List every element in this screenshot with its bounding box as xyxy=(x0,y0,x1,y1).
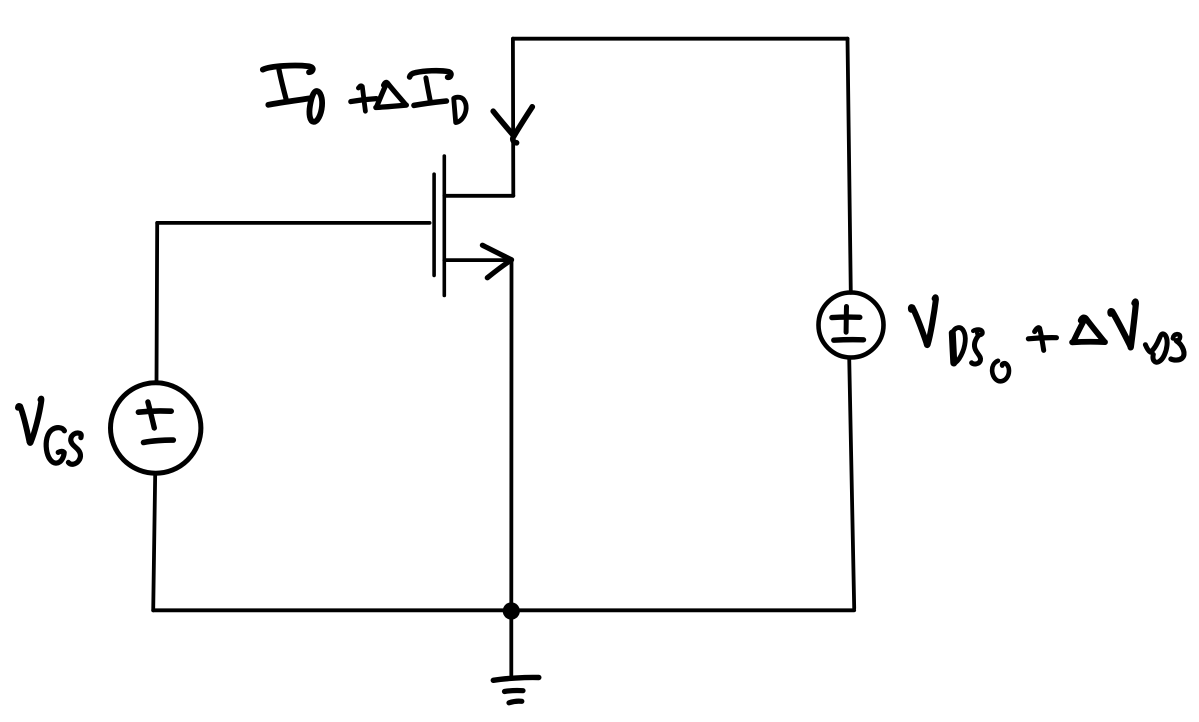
voltage source U1 (VGS) circle xyxy=(111,383,201,473)
I2 subscript D xyxy=(454,97,466,122)
V1 right xyxy=(927,297,936,345)
label I_D+dI_D : I1 top bar xyxy=(263,66,313,73)
delta 1 xyxy=(376,82,387,107)
U1 minus sign xyxy=(144,440,174,442)
wire gate vertical down to VGS xyxy=(155,223,159,383)
U1 plus sign xyxy=(148,402,154,428)
wire drain vertical xyxy=(511,39,515,196)
subscript G xyxy=(46,428,64,464)
V2 right xyxy=(1130,301,1136,347)
subsubscript 0 xyxy=(992,361,1009,382)
plus 2 crossbar xyxy=(1028,338,1056,339)
subscript D xyxy=(952,333,954,363)
I2 top bar xyxy=(410,71,451,78)
ground bar 1 xyxy=(493,677,539,680)
subscript S xyxy=(68,433,81,464)
subscript S xyxy=(973,329,982,335)
current arrow ID xyxy=(493,111,513,135)
I2 bottom bar xyxy=(414,101,446,105)
wire ground stub xyxy=(509,611,513,678)
plus 1 crossbar xyxy=(351,99,377,102)
plus 2 vertical xyxy=(1035,328,1044,351)
label VGS : V left stroke xyxy=(18,406,30,442)
ground bar 2 xyxy=(505,688,524,694)
ground bar 3 xyxy=(509,701,522,703)
transistor M1 channel bar xyxy=(442,156,446,296)
junction node dot xyxy=(503,602,520,619)
V2 left xyxy=(1110,311,1130,346)
I1 bottom bar xyxy=(268,98,309,104)
voltage source U2 (VDS) circle xyxy=(819,293,884,358)
transistor M1 source arrow xyxy=(482,245,511,260)
plus 1 vertical xyxy=(358,86,365,111)
wire right vertical upper xyxy=(848,39,851,293)
wire source vertical xyxy=(509,260,513,611)
wire VDS- to bottom right corner xyxy=(849,358,854,609)
wire bottom xyxy=(153,608,854,612)
U2 plus sign xyxy=(844,307,849,333)
delta 2 xyxy=(1073,317,1085,341)
transistor M1 source stub xyxy=(444,258,511,262)
transistor M1 drain stub xyxy=(444,194,513,198)
U2 minus sign xyxy=(834,337,864,343)
wire VGS- to bottom left corner xyxy=(153,473,155,610)
subscript D2 xyxy=(1145,334,1167,362)
wire top (drain to VDS+) xyxy=(513,37,848,41)
I2 vertical xyxy=(426,78,431,102)
wire gate horizontal xyxy=(157,221,429,225)
I1 vertical xyxy=(279,70,286,100)
label VDS0+dVDS : V1 left xyxy=(911,307,927,343)
transistor M1 gate bar xyxy=(432,174,436,275)
I1 subscript D xyxy=(309,91,322,122)
subscript S2 xyxy=(1173,334,1180,340)
V right stroke xyxy=(29,399,41,443)
